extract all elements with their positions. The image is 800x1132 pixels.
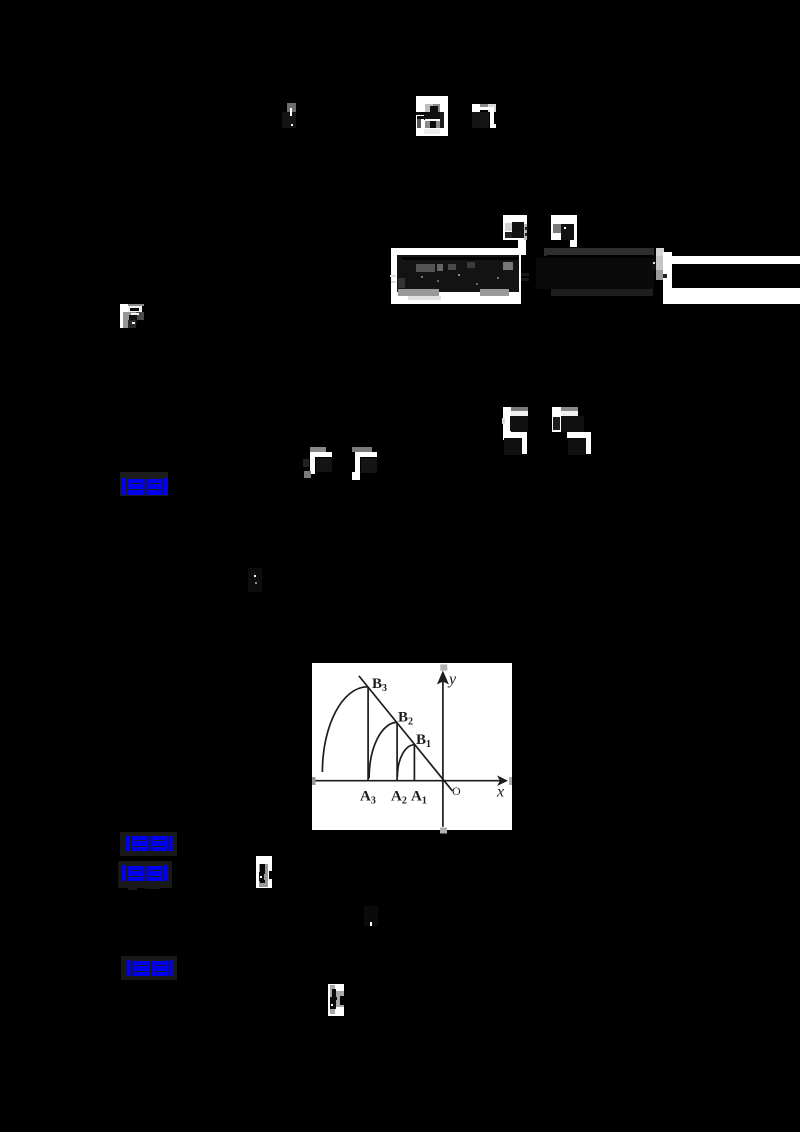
svg-text:x: x — [496, 784, 504, 801]
svg-text:O: O — [452, 784, 461, 798]
svg-text:y: y — [447, 671, 457, 688]
